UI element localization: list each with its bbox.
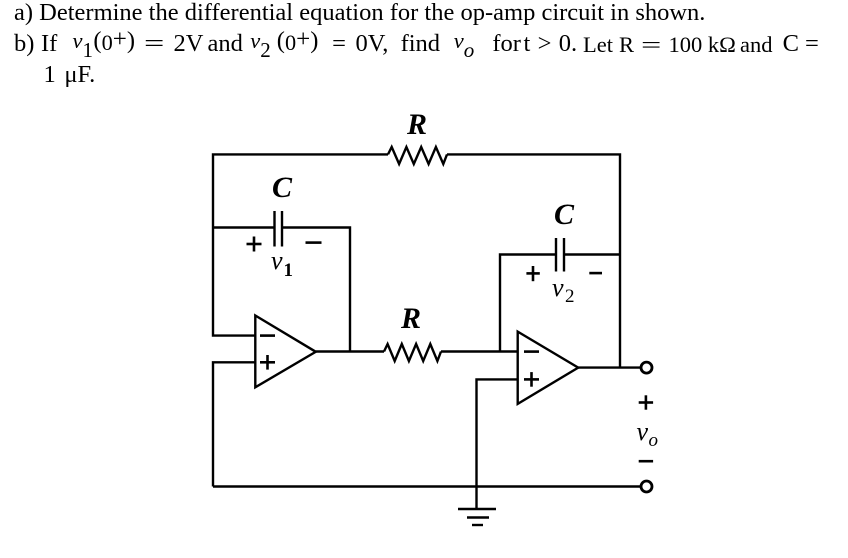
svg-text:C: C	[554, 198, 575, 231]
wire resistor to U2 inverting input	[441, 350, 518, 352]
plus symbol U2 non-inverting input	[524, 372, 539, 387]
wire capacitor C1 left lead	[213, 226, 274, 228]
wire capacitor C1 right lead, down to op-amp U1 output node	[282, 228, 350, 352]
terminal top output	[641, 362, 652, 373]
wire capacitor C2 right lead to right vertical rail	[564, 253, 620, 255]
capacitor C1	[275, 211, 283, 247]
op-amp U2	[518, 332, 579, 404]
svg-text:o: o	[649, 430, 659, 451]
ground	[458, 509, 496, 525]
minus sign v1 polarity	[306, 241, 322, 244]
svg-text:v: v	[271, 246, 283, 275]
svg-text:2: 2	[565, 286, 575, 307]
wire U2 output to terminal	[578, 366, 640, 368]
plus sign v2 polarity	[526, 266, 539, 281]
wire bottom rail	[213, 485, 641, 487]
minus sign v2 polarity	[589, 272, 602, 275]
minus symbol U1 inverting input	[260, 334, 275, 337]
resistor R2 (middle R)	[384, 344, 441, 361]
minus sign vo polarity	[639, 460, 653, 463]
wire U1 non-inverting input from bottom rail	[213, 362, 255, 486]
op-amp U1	[255, 316, 315, 388]
svg-text:1: 1	[284, 260, 294, 281]
resistor R1 (top feedback R)	[388, 147, 447, 164]
plus symbol U1 non-inverting input	[260, 355, 275, 370]
wire top-right segment	[447, 154, 620, 367]
svg-text:v: v	[552, 273, 564, 302]
node label v1	[271, 246, 293, 281]
plus sign v1 polarity	[247, 237, 262, 252]
plus sign vo polarity	[639, 395, 653, 409]
svg-text:R: R	[400, 302, 421, 335]
terminal bottom output	[641, 481, 652, 492]
wire node at x=500 up to capacitor C2	[500, 255, 555, 352]
problem statement text	[14, 1, 705, 26]
wire U1 output to resistor R2	[316, 350, 384, 352]
wire U2 non-inverting input to ground rail	[477, 379, 518, 509]
svg-text:C: C	[272, 171, 293, 204]
svg-text:R: R	[406, 108, 427, 141]
capacitor C2	[556, 238, 564, 272]
svg-text:v: v	[637, 417, 649, 446]
wire top-left segment	[213, 154, 388, 335]
node label v2	[552, 273, 575, 307]
minus symbol U2 inverting input	[524, 350, 539, 353]
node label vo	[637, 417, 659, 451]
